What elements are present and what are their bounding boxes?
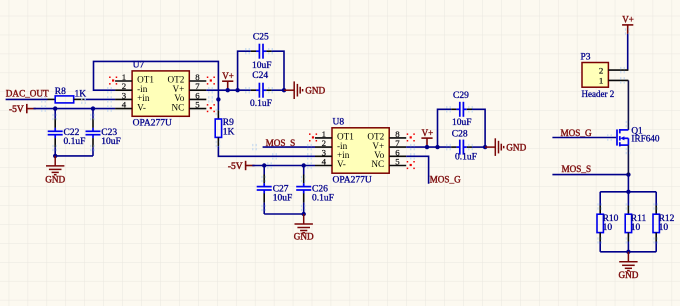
svg-text:0.1uF: 0.1uF xyxy=(250,99,272,109)
junction MOS_S / source xyxy=(626,172,630,176)
op-amp U8 OPA277U xyxy=(332,118,389,186)
wire Q1 source down to resistor bank xyxy=(627,145,629,175)
U7 pin 4 (V-) xyxy=(115,100,146,113)
P3 pin 1 xyxy=(599,76,629,86)
U7 pin 8 (OT2) xyxy=(167,72,206,85)
wire MOS_S rail xyxy=(552,174,628,176)
wire top bus to R12 xyxy=(655,192,657,206)
svg-text:GND: GND xyxy=(506,142,526,152)
wire C29 loop xyxy=(438,109,452,147)
svg-text:10: 10 xyxy=(603,223,613,233)
svg-text:GND: GND xyxy=(45,174,65,184)
wire U7 Vo down to R9 xyxy=(217,99,219,110)
svg-text:0.1uF: 0.1uF xyxy=(455,152,477,162)
wire MOS_G to Q1 gate xyxy=(552,137,616,139)
wire U8 V+ rail xyxy=(406,146,451,148)
svg-text:GND: GND xyxy=(305,86,325,96)
svg-text:1: 1 xyxy=(599,76,603,86)
resistor R10 xyxy=(597,214,619,233)
junction at GND stem xyxy=(53,154,57,158)
transistor Q1 IRF640 xyxy=(617,129,628,146)
svg-text:-5V: -5V xyxy=(228,162,243,172)
svg-text:GND: GND xyxy=(618,270,638,280)
junction V+ stem (U8) xyxy=(425,145,429,149)
svg-text:MOS_G: MOS_G xyxy=(430,174,462,184)
capacitor C24 xyxy=(252,71,268,98)
no-ERC marker U7 pin 8 xyxy=(210,79,212,81)
junction at C27 tap xyxy=(262,163,266,167)
wire C27 to ground rail xyxy=(263,193,265,202)
junction C25 loop left xyxy=(235,88,239,92)
U8 pin 5 (NC) xyxy=(371,157,406,170)
junction U7 Vo node xyxy=(216,97,220,101)
U7 pin 7 (V+) xyxy=(172,81,206,94)
svg-text:R8: R8 xyxy=(55,87,66,97)
U8 pin 3 (+in) xyxy=(315,147,350,160)
wire resistor bank top bus xyxy=(600,191,656,193)
svg-text:10uF: 10uF xyxy=(273,194,293,204)
junction bottom bus xyxy=(626,250,630,254)
svg-text:Header 2: Header 2 xyxy=(582,89,615,99)
wire ground rail C22-C23 xyxy=(55,155,93,157)
junction V+ stem xyxy=(226,88,230,92)
svg-text:5: 5 xyxy=(195,100,200,110)
P3 pin 2 xyxy=(599,65,629,75)
wire resistor bank bottom bus xyxy=(600,251,656,253)
wire C23 to ground rail xyxy=(92,138,94,147)
ground GND (left) xyxy=(46,156,64,175)
wire U8 Vo to MOS_G xyxy=(406,156,428,183)
wire C26 to ground rail xyxy=(303,193,305,202)
svg-text:OPA277U: OPA277U xyxy=(133,119,172,129)
junction top bus xyxy=(626,190,630,194)
resistor R12 xyxy=(653,214,675,233)
wire DAC_OUT to R8 xyxy=(6,98,48,100)
wire -5V rail down to C26 xyxy=(303,166,305,175)
wire -5V to U7 pin4 xyxy=(34,108,116,110)
svg-text:1K: 1K xyxy=(75,89,87,99)
wire MOS_S to U8 pin2 xyxy=(263,146,315,148)
svg-text:P3: P3 xyxy=(581,53,591,63)
U7 pin 1 (OT1) xyxy=(115,72,154,85)
svg-text:V-: V- xyxy=(337,159,346,169)
wire P3 pin1 to Q1 drain xyxy=(627,80,629,129)
svg-text:10: 10 xyxy=(631,223,641,233)
no-ERC marker U8 pin 1 xyxy=(312,136,314,138)
connection marks (decorative-ish light blue dashes) xyxy=(42,28,658,243)
capacitor C25 xyxy=(253,33,269,59)
junction at C22 tap xyxy=(53,106,57,110)
U7 pin 6 (Vo) xyxy=(174,90,206,103)
svg-text:NC: NC xyxy=(371,159,384,169)
ground GND (U8 rail, bar style) xyxy=(485,138,504,156)
svg-text:4: 4 xyxy=(122,100,127,110)
junction at middle GND stem xyxy=(302,212,306,216)
svg-text:1K: 1K xyxy=(223,127,235,137)
svg-text:V+: V+ xyxy=(422,128,434,138)
ground GND (right) xyxy=(619,252,637,271)
U8 pin 4 (V-) xyxy=(315,157,346,170)
capacitor C28 xyxy=(452,129,468,154)
wire C25 loop xyxy=(238,51,251,90)
svg-text:10uF: 10uF xyxy=(452,118,472,128)
svg-text:IRF640: IRF640 xyxy=(631,134,659,144)
capacitor C23 xyxy=(86,128,118,138)
junction at C23 tap xyxy=(91,106,95,110)
junction C29 loop right xyxy=(483,145,487,149)
wire C22 to ground rail xyxy=(54,138,56,147)
connector P3 Header 2 xyxy=(581,53,609,88)
no-ERC marker U8 pin 8 xyxy=(410,136,412,138)
svg-text:OPA277U: OPA277U xyxy=(333,176,372,186)
wire -5V to U8 pin4 xyxy=(252,165,315,167)
svg-text:V+: V+ xyxy=(622,15,634,25)
wire U7 feedback (-in to Vo) xyxy=(94,61,219,99)
op-amp U7 OPA277U xyxy=(132,61,189,129)
capacitor C29 xyxy=(453,91,469,117)
svg-text:MOS_G: MOS_G xyxy=(561,128,593,138)
wire -5V rail down to C23 xyxy=(92,109,94,119)
junction at C26 tap xyxy=(302,163,306,167)
U7 pin 2 (-in) xyxy=(115,81,148,94)
wire top bus to R10 xyxy=(599,192,601,206)
wire V+ to P3 pin2 xyxy=(627,34,629,70)
junction C29 loop left xyxy=(435,145,439,149)
resistor R8 xyxy=(55,87,74,103)
wire ground rail C27-C26 xyxy=(264,213,304,215)
svg-text:DAC_OUT: DAC_OUT xyxy=(6,89,49,99)
svg-text:MOS_S: MOS_S xyxy=(562,164,592,174)
wire U7 V+ rail xyxy=(206,89,251,91)
wire -5V rail down to C27 xyxy=(263,166,265,175)
svg-text:C24: C24 xyxy=(252,71,268,81)
resistor R11 xyxy=(625,214,646,233)
svg-text:10: 10 xyxy=(659,223,669,233)
wire R8 to U7 pin3 xyxy=(74,98,84,100)
svg-text:4: 4 xyxy=(322,157,327,167)
svg-text:10uF: 10uF xyxy=(101,137,121,147)
svg-text:0.1uF: 0.1uF xyxy=(64,137,86,147)
U8 pin 8 (OT2) xyxy=(367,129,406,142)
svg-text:0.1uF: 0.1uF xyxy=(312,194,334,204)
ground GND (middle) xyxy=(295,214,313,233)
ground GND (U7 rail, bar style) xyxy=(284,81,303,99)
svg-text:5: 5 xyxy=(395,157,400,167)
no-ERC marker U7 pin 1 xyxy=(112,79,114,81)
wire R12 to bottom bus xyxy=(655,233,657,242)
U8 pin 7 (V+) xyxy=(372,138,406,151)
no-ERC marker U8 pin 5 xyxy=(410,164,412,166)
U8 pin 2 (-in) xyxy=(315,138,348,151)
svg-text:-5V: -5V xyxy=(9,105,24,115)
U7 pin 3 (+in) xyxy=(115,90,150,103)
svg-text:NC: NC xyxy=(172,102,185,112)
wire R9 to U8 pin3 xyxy=(217,137,219,146)
U7 pin 5 (NC) xyxy=(172,100,207,113)
U8 pin 6 (Vo) xyxy=(374,147,406,160)
junction C25 loop right xyxy=(282,88,286,92)
wire top bus to R11 xyxy=(627,192,629,206)
wire R11 to bottom bus xyxy=(627,233,629,242)
svg-text:C28: C28 xyxy=(452,129,468,139)
U8 pin 1 (OT1) xyxy=(315,129,354,142)
wire -5V rail down to C22 xyxy=(54,109,56,119)
wire R10 to bottom bus xyxy=(599,233,601,242)
svg-text:V-: V- xyxy=(137,102,146,112)
resistor R9 xyxy=(215,118,234,137)
capacitor C27 xyxy=(257,183,289,195)
svg-text:U8: U8 xyxy=(333,118,345,128)
capacitor C26 xyxy=(296,183,328,195)
no-ERC marker U7 pin 5 xyxy=(210,107,212,109)
svg-text:GND: GND xyxy=(294,232,314,242)
svg-text:C29: C29 xyxy=(453,91,469,101)
capacitor C22 xyxy=(48,128,80,138)
svg-text:10uF: 10uF xyxy=(252,61,272,71)
svg-text:2: 2 xyxy=(599,65,603,75)
svg-text:C25: C25 xyxy=(253,33,269,43)
svg-text:V+: V+ xyxy=(222,71,234,81)
